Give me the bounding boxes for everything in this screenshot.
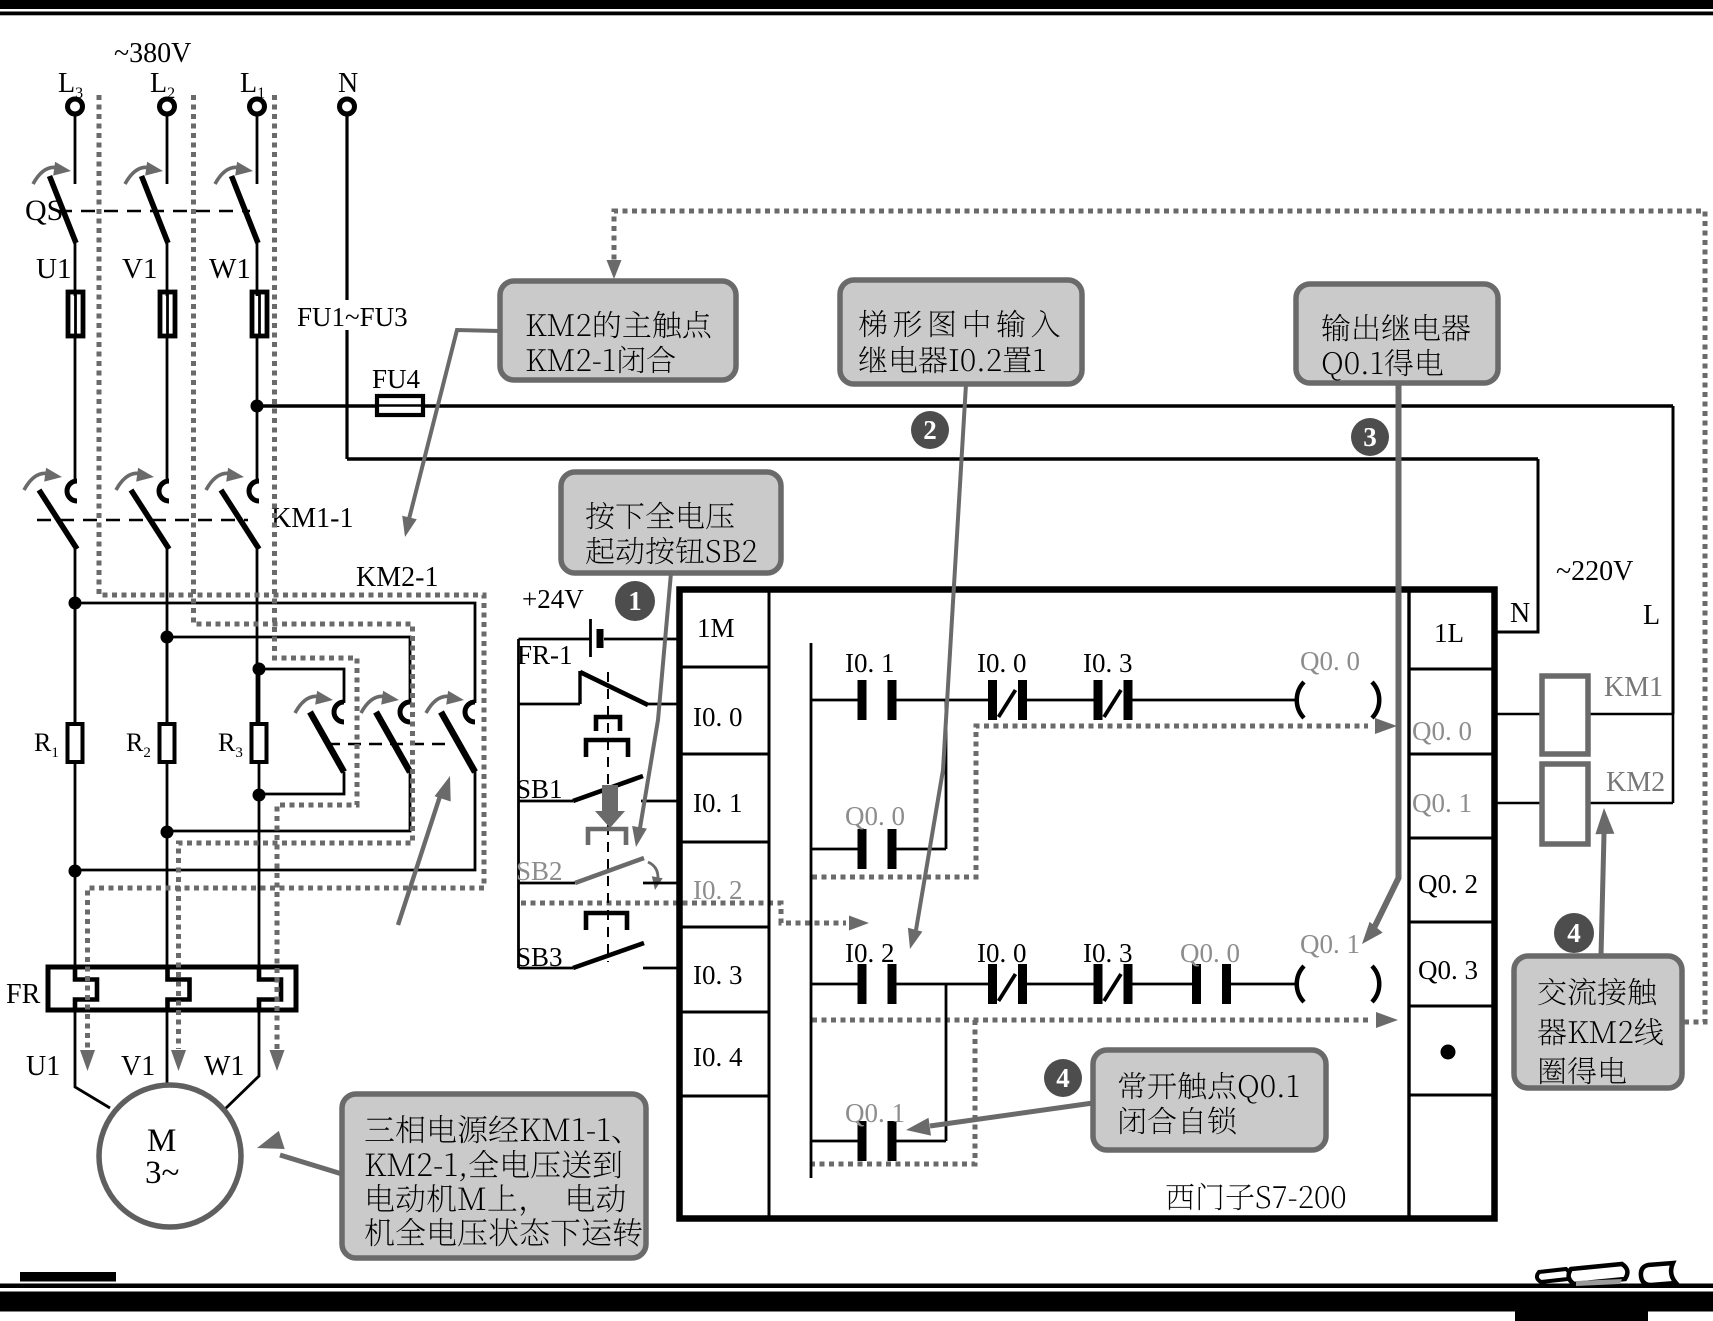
node phase1 bottom junction	[69, 865, 82, 878]
input terminal label I0.1	[693, 788, 743, 818]
label ~380V	[114, 38, 191, 69]
contact I0.1 (NO)	[845, 648, 895, 720]
dotted path phase3 arrowhead	[270, 1050, 285, 1071]
battery symbol	[591, 619, 604, 657]
contact I0.0 (NC) rung1	[977, 648, 1027, 720]
wire R2 bottom	[166, 762, 169, 832]
wire KM2-1 branch phase1 bottom	[75, 771, 475, 870]
callout box 'output relay Q0.1 energized'	[1296, 284, 1498, 383]
callout box 'KM2 main contact KM2-1 closes'	[500, 281, 736, 380]
fuse FU2	[160, 292, 175, 336]
svg-text:FU1~FU3: FU1~FU3	[297, 302, 408, 332]
wire phase1 to FR	[74, 871, 77, 967]
junction node on L1 phase	[251, 400, 264, 413]
svg-text:M: M	[147, 1123, 176, 1159]
wire L between KM1 and KM2	[1672, 714, 1675, 803]
label FR-1	[517, 640, 573, 670]
button SB2 wire left	[519, 882, 576, 885]
contactor KM2-1 pole 3 arrow	[295, 691, 333, 713]
svg-text:Q0. 0: Q0. 0	[1412, 716, 1472, 746]
callout7 arrow to motor	[257, 1131, 342, 1174]
PLC output cell divider y=838	[1409, 837, 1496, 840]
button SB2 cap (grey)	[588, 829, 626, 845]
svg-text:1: 1	[628, 586, 642, 616]
wire R3 bottom	[258, 762, 261, 795]
wire KM2-1 branch phase2 top	[167, 637, 410, 703]
label KM2	[1606, 767, 1665, 798]
svg-text:1M: 1M	[697, 613, 735, 643]
contact Q0.0 (NO) rung2	[1180, 938, 1240, 1004]
rung2 branch wire	[811, 984, 946, 1141]
switch QS pole 3 arrow	[215, 162, 253, 184]
svg-text:I0. 0: I0. 0	[977, 648, 1027, 678]
contactor KM1-1 pole 1 fixed contact	[67, 481, 77, 501]
contactor KM1-1 pole 3 arrow	[206, 468, 244, 490]
output terminal dot	[1441, 1045, 1456, 1060]
cigarette doodle	[1537, 1263, 1676, 1286]
callout box 'NO contact Q0.1 closes self-locking'	[1093, 1050, 1326, 1150]
wire W1 to motor	[224, 1010, 259, 1110]
svg-text:W1: W1	[204, 1051, 244, 1082]
svg-text:I0. 1: I0. 1	[845, 648, 895, 678]
label SB1	[516, 774, 563, 804]
label W1 (motor)	[204, 1051, 244, 1082]
bottom right black block	[1515, 1306, 1648, 1321]
KM1-1 linkage dashed line	[37, 519, 248, 522]
output terminal label 1L	[1434, 618, 1464, 648]
label QS	[25, 194, 63, 227]
svg-text:KM1: KM1	[1604, 672, 1663, 703]
PLC output cell divider y=922	[1409, 921, 1496, 924]
switch QS pole 1 arrow	[33, 162, 71, 184]
border frame top thick bar	[0, 0, 1713, 9]
wire KM2-1 branch phase3 top	[259, 669, 344, 703]
motor label M	[147, 1123, 176, 1159]
wire battery to bus	[519, 638, 591, 641]
input terminal label I0.2	[693, 875, 743, 905]
button SB1 mushroom cap	[586, 717, 628, 757]
number circle 4 (KM2 coil)	[1554, 913, 1594, 953]
switch QS pole 2 arrow	[125, 162, 163, 184]
wire QS to fuse FU2	[166, 243, 169, 296]
input terminal label 1M	[697, 613, 735, 643]
coil KM1	[1542, 676, 1588, 754]
svg-text:I0. 1: I0. 1	[693, 788, 743, 818]
contactor KM1-1 pole 2 blade	[131, 490, 169, 549]
KM2-1 linkage dashed line	[327, 743, 452, 746]
PLC input cell divider y=1096	[679, 1095, 769, 1098]
svg-text:R2: R2	[126, 728, 151, 761]
svg-text:3: 3	[1363, 422, 1377, 452]
callout box 'press full-voltage start button SB2'	[561, 472, 781, 573]
svg-text:3~: 3~	[145, 1155, 179, 1191]
wire R1 bottom	[74, 762, 77, 871]
contactor KM2-1 pole 2 arrow	[361, 691, 399, 713]
svg-text:L: L	[1643, 600, 1660, 631]
button SB1 blade	[573, 776, 643, 801]
callout5 arrow to Q0.1 contact	[906, 1103, 1093, 1136]
svg-text:I0. 2: I0. 2	[845, 938, 895, 968]
wire KM1-1 pole1 down	[74, 549, 77, 724]
svg-text:L2: L2	[150, 68, 175, 102]
svg-text:SB1: SB1	[516, 774, 563, 804]
contactor KM1-1 pole 2 arrow	[116, 468, 154, 490]
svg-text:N: N	[338, 68, 358, 99]
svg-text:Q0. 0: Q0. 0	[845, 801, 905, 831]
ladder left rail	[810, 643, 813, 1178]
input bus vertical	[517, 639, 520, 968]
label U1 (above fuse)	[36, 253, 71, 285]
PLC input cell divider y=842	[679, 841, 769, 844]
wire KM1-1 pole2 down	[166, 549, 169, 724]
dotted current path phase3 (via KM2-1)	[275, 95, 358, 1049]
svg-text:Q0. 3: Q0. 3	[1418, 955, 1478, 985]
svg-text:I0. 2: I0. 2	[693, 875, 743, 905]
svg-text:Q0. 1: Q0. 1	[845, 1098, 905, 1128]
wire L2 terminal to QS	[166, 114, 169, 185]
button SB1 wire left	[519, 800, 574, 803]
label U1 (motor)	[26, 1051, 60, 1082]
output terminal label Q0.2	[1418, 869, 1478, 899]
standalone arrow to KM2-1 contacts	[398, 776, 451, 925]
node phase2 top junction	[161, 631, 174, 644]
svg-text:2: 2	[923, 415, 937, 445]
contactor KM2-1 pole 1 blade	[441, 712, 475, 772]
fuse FU4	[377, 396, 423, 415]
wire KM2-1 branch phase3 bottom	[259, 772, 344, 794]
contact Q0.0 self-lock (NO)	[845, 801, 905, 869]
border frame top thin bar	[0, 12, 1713, 16]
contact FR-1 wire left	[519, 703, 581, 706]
input terminal label I0.3	[693, 960, 743, 990]
number circle 3	[1351, 418, 1389, 456]
contact I0.3 (NC) rung1	[1083, 648, 1133, 720]
button SB3 wire left	[519, 967, 574, 970]
svg-text:FR: FR	[6, 979, 41, 1010]
wire phase2 to FR	[166, 832, 169, 967]
output terminal label Q0.3	[1418, 955, 1478, 985]
svg-text:R1: R1	[34, 728, 59, 761]
PLC output cell divider y=669	[1409, 668, 1496, 671]
svg-text:I0. 3: I0. 3	[1083, 938, 1133, 968]
svg-text:FU4: FU4	[372, 364, 421, 394]
terminal L1 label	[240, 68, 265, 102]
wire L drop right side	[1672, 406, 1675, 714]
terminal L1 circle	[250, 99, 265, 114]
dotted feedback arrowhead into callout	[607, 260, 622, 279]
wire R3 top	[258, 669, 261, 724]
terminal N label	[338, 68, 358, 99]
button SB3 wire right	[643, 967, 679, 970]
terminal L2 label	[150, 68, 175, 102]
svg-text:4: 4	[1567, 918, 1581, 948]
terminal L3 label	[58, 68, 83, 102]
button SB2 closing arrow	[648, 862, 663, 890]
svg-text:KM2-1: KM2-1	[356, 562, 438, 593]
svg-text:Q0. 1: Q0. 1	[1300, 929, 1360, 959]
dotted path rung2 to output Q0.1	[812, 1018, 1371, 1023]
svg-text:I0. 3: I0. 3	[693, 960, 743, 990]
wire Q0.0 to KM1 coil	[1496, 713, 1673, 716]
dotted path phase1 arrowhead	[80, 1050, 95, 1071]
label SB3	[516, 942, 563, 972]
wire fuse FU2 down to KM1-1	[166, 336, 169, 482]
wire V1 to motor	[166, 1010, 169, 1085]
label FR	[6, 979, 41, 1010]
svg-text:U1: U1	[26, 1051, 60, 1082]
border frame bottom thin bar	[0, 1284, 1713, 1289]
output terminal label Q0.1	[1412, 788, 1472, 818]
callout2 line to ladder I0.2	[908, 384, 966, 949]
contact I0.3 (NC) rung2	[1083, 938, 1133, 1004]
dotted path phase2 arrowhead	[171, 1050, 186, 1071]
dotted path Q0.1 arrowhead	[1376, 1012, 1398, 1028]
label V1 (motor)	[121, 1051, 155, 1082]
rung2 wire segments	[811, 983, 1296, 986]
callout6 arrow to KM2 coil	[1595, 808, 1614, 956]
node phase3 bottom junction	[253, 789, 266, 802]
contactor KM2-1 pole 1 arrow	[426, 691, 464, 713]
svg-text:I0. 4: I0. 4	[693, 1042, 743, 1072]
label 西门子S7-200	[1166, 1183, 1345, 1210]
svg-text:L1: L1	[240, 68, 265, 102]
contactor KM2-1 pole 1 fixed contact	[465, 702, 475, 722]
dotted current path phase1 (via KM2-1)	[88, 95, 485, 1049]
label ~220V	[1556, 556, 1633, 587]
dotted path SB2 to input I0.2	[521, 903, 846, 923]
svg-text:L3: L3	[58, 68, 83, 102]
dotted current path phase2 (via KM2-1)	[179, 95, 413, 1049]
dotted path I0.2 arrowhead	[849, 916, 869, 931]
label SB2	[516, 856, 563, 886]
output terminal label Q0.0	[1412, 716, 1472, 746]
svg-text:W1: W1	[209, 253, 251, 285]
svg-text:Q0. 2: Q0. 2	[1418, 869, 1478, 899]
wire N terminal down	[345, 114, 348, 460]
wire KM1-1 pole3 down	[256, 549, 259, 724]
contact Q0.1 self-lock (NO)	[845, 1098, 905, 1161]
callout3 line to coil Q0.1	[1362, 383, 1399, 944]
callout box 'three-phase power via KM1-1 KM2-1 full voltage to motor'	[342, 1094, 646, 1258]
button SB2 blade (grey)	[575, 858, 644, 883]
button SB2 wire right	[643, 882, 679, 885]
wire L feed (through FU4) to right side	[257, 404, 1673, 407]
contactor KM2-1 pole 2 blade	[376, 712, 410, 772]
terminal N circle	[340, 99, 355, 114]
terminal L2 circle	[160, 99, 175, 114]
node phase3 top junction	[253, 663, 266, 676]
contactor KM2-1 pole 2 fixed contact	[400, 702, 410, 722]
wire L3 terminal to QS	[74, 114, 77, 185]
rung1 branch wire	[811, 700, 946, 849]
svg-text:V1: V1	[121, 1051, 155, 1082]
wire N horizontal to right side	[347, 457, 1538, 460]
label KM1	[1604, 672, 1663, 703]
FR heater element at x=259	[259, 967, 281, 1010]
input terminal label I0.4	[693, 1042, 743, 1072]
wire R2 top	[166, 637, 169, 724]
contact I0.2 (NO)	[845, 938, 895, 1004]
node phase1 top junction	[69, 597, 82, 610]
actuator dashed link line	[607, 672, 609, 962]
button SB3 blade	[573, 943, 644, 968]
rung1 wire segments	[811, 699, 1296, 702]
svg-text:I0. 0: I0. 0	[693, 702, 743, 732]
PLC output cell divider y=754	[1409, 753, 1496, 756]
motor M circle	[99, 1085, 241, 1227]
PLC output column divider	[1407, 589, 1410, 1219]
PLC input cell divider y=927	[679, 926, 769, 929]
contact FR-1 blade	[580, 672, 648, 705]
dotted path rung1 to output Q0.0	[812, 726, 1368, 877]
contact FR-1 wire right	[646, 703, 679, 706]
contactor KM1-1 pole 3 blade	[221, 490, 259, 549]
fuse FU1	[68, 292, 83, 336]
fuse FU3	[252, 292, 267, 336]
PLC S7-200 outer box	[680, 590, 1495, 1219]
switch QS pole 1 blade	[50, 176, 77, 243]
svg-text:FR-1: FR-1	[517, 640, 573, 670]
switch QS pole 2 blade	[142, 176, 169, 243]
svg-text:4: 4	[1056, 1063, 1070, 1093]
bottom small black tab left	[20, 1272, 116, 1282]
number circle 4 (ladder)	[1044, 1059, 1082, 1097]
callout box 'AC contactor KM2 coil energized'	[1514, 956, 1682, 1088]
label FU4	[372, 364, 421, 394]
wire 1M to battery	[604, 638, 679, 641]
contact FR-1 fixed post	[578, 671, 581, 704]
contactor KM1-1 pole 1 blade	[39, 490, 77, 549]
svg-text:U1: U1	[36, 253, 71, 285]
PLC output cell divider y=1095	[1409, 1094, 1496, 1097]
PLC input column divider	[768, 589, 771, 1219]
button SB3 cap	[586, 913, 627, 930]
wire Q0.1 to KM2 coil	[1496, 802, 1673, 805]
wire fuse FU1 down to KM1-1	[74, 336, 77, 482]
wire KM2-1 branch phase1 top	[75, 603, 475, 703]
press action arrow on SB2	[595, 785, 625, 828]
button SB1 wire right	[641, 800, 679, 803]
svg-text:Q0. 0: Q0. 0	[1300, 646, 1360, 676]
coil KM2	[1542, 764, 1588, 844]
wire phase3 to FR	[258, 795, 261, 967]
label N (220V)	[1510, 598, 1530, 629]
wire KM2-1 branch phase2 bottom	[167, 771, 410, 831]
svg-text:V1: V1	[122, 253, 157, 285]
dotted feedback path to KM2 callout	[614, 211, 1705, 1022]
label KM2-1	[356, 562, 438, 593]
PLC output cell divider y=1006	[1409, 1005, 1496, 1008]
label W1 (above fuse)	[209, 253, 251, 285]
svg-text:KM2: KM2	[1606, 767, 1665, 798]
number circle 2	[911, 411, 949, 449]
contactor KM2-1 pole 3 fixed contact	[334, 702, 344, 722]
label KM1-1	[271, 503, 353, 534]
wire L1 terminal to QS	[256, 114, 259, 185]
svg-text:~380V: ~380V	[114, 38, 191, 69]
svg-text:+24V: +24V	[522, 584, 584, 614]
QS linkage dashed line	[58, 210, 250, 213]
label L (220V)	[1643, 600, 1660, 631]
label V1 (above fuse)	[122, 253, 157, 285]
label +24V	[522, 584, 584, 614]
FR heater element at x=167.5	[168, 967, 190, 1010]
svg-text:Q0. 0: Q0. 0	[1180, 938, 1240, 968]
contact I0.0 (NC) rung2	[977, 938, 1027, 1004]
PLC input cell divider y=667	[679, 666, 769, 669]
svg-text:R3: R3	[218, 728, 243, 761]
svg-text:SB2: SB2	[516, 856, 563, 886]
PLC input cell divider y=1012	[679, 1011, 769, 1014]
motor label 3~	[145, 1155, 179, 1191]
svg-text:KM1-1: KM1-1	[271, 503, 353, 534]
callout4 line to SB2	[632, 573, 671, 847]
label FU1~FU3	[295, 300, 437, 332]
dotted box around Q0.1 self-lock contact	[812, 1020, 975, 1164]
node phase2 bottom junction	[161, 826, 174, 839]
svg-text:1L: 1L	[1434, 618, 1464, 648]
resistor R1	[34, 724, 83, 762]
callout1 arrow to KM2-1	[402, 330, 500, 537]
svg-text:~220V: ~220V	[1556, 556, 1633, 587]
resistor R2	[126, 724, 175, 762]
svg-text:N: N	[1510, 598, 1530, 629]
border frame bottom thick bar	[0, 1292, 1713, 1312]
switch QS pole 3 blade	[232, 176, 259, 243]
svg-text:Q0. 1: Q0. 1	[1412, 788, 1472, 818]
contactor KM1-1 pole 2 fixed contact	[159, 481, 169, 501]
wire QS to fuse FU3	[256, 243, 259, 296]
svg-text:I0. 3: I0. 3	[1083, 648, 1133, 678]
svg-text:I0. 0: I0. 0	[977, 938, 1027, 968]
PLC input cell divider y=754	[679, 753, 769, 756]
terminal L3 circle	[68, 99, 83, 114]
coil Q0.0	[1297, 646, 1379, 718]
input terminal label I0.0	[693, 702, 743, 732]
callout box 'ladder input relay I0.2 set to 1'	[840, 280, 1082, 384]
thermal relay FR box	[48, 967, 296, 1010]
wire R1 top	[74, 603, 77, 724]
FR heater element at x=75	[75, 967, 97, 1010]
number circle 1	[615, 581, 655, 621]
coil Q0.1	[1297, 929, 1379, 1002]
resistor R3	[218, 724, 267, 762]
wire fuse FU3 down to KM1-1	[256, 336, 259, 482]
dotted path Q0.0 arrowhead	[1375, 718, 1397, 734]
wire U1 to motor	[75, 1010, 110, 1108]
wire QS to fuse FU1	[74, 243, 77, 296]
wire N drop to 1L	[1496, 459, 1538, 632]
contactor KM1-1 pole 3 fixed contact	[249, 481, 259, 501]
contactor KM1-1 pole 1 arrow	[24, 468, 62, 490]
contactor KM2-1 pole 3 blade	[310, 712, 344, 772]
